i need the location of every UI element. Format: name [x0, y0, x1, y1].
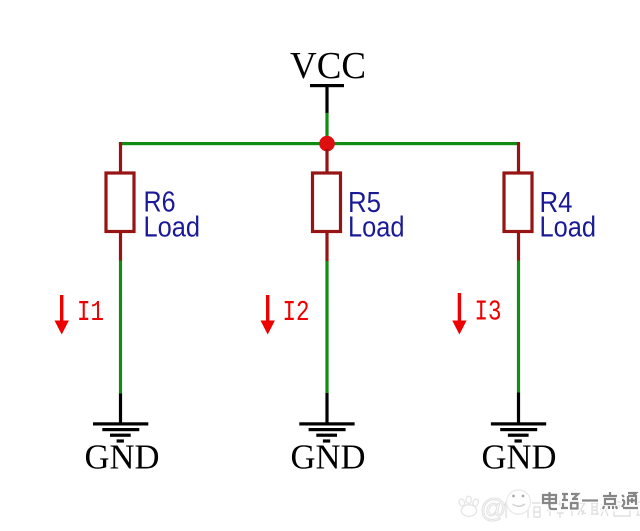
resistor R4	[504, 173, 532, 232]
watermark faint glyph 1	[504, 500, 520, 518]
wire horizontal bus (green)	[119, 142, 519, 145]
watermark faint glyph 5	[591, 502, 609, 516]
wire R6 to ground (green)	[119, 261, 122, 394]
watermark paw icon (faint)	[458, 496, 479, 516]
wire R5 lower stub (dark red)	[325, 233, 328, 261]
svg-text:Load: Load	[144, 212, 201, 244]
wire VCC to junction (green)	[325, 113, 328, 144]
resistor R5	[313, 173, 341, 232]
watermark text dianlu-yidiantong (vector strokes)	[543, 492, 638, 509]
watermark faint glyph 4	[569, 501, 586, 516]
watermark logo circle	[507, 490, 531, 514]
wire ground stub left (black)	[119, 394, 122, 424]
svg-text:GND: GND	[291, 438, 366, 477]
junction node (red dot)	[319, 136, 335, 152]
svg-text:Load: Load	[540, 212, 597, 244]
wire junction to R5 (dark red)	[325, 149, 328, 172]
wire R5 to ground (green)	[325, 261, 328, 393]
watermark faint glyph 3	[547, 500, 565, 518]
wire corner cap left	[119, 142, 122, 145]
wire R6 lower stub (dark red)	[119, 233, 122, 261]
svg-text:GND: GND	[85, 438, 160, 477]
wire R4 lower stub (dark red)	[517, 232, 520, 261]
resistor R6	[106, 173, 134, 232]
ground symbol right	[491, 422, 546, 442]
ground symbol middle	[299, 422, 354, 442]
svg-text:I2: I2	[283, 296, 310, 329]
wire R4 to ground (green)	[517, 261, 520, 393]
ground symbol left	[93, 422, 148, 442]
watermark halo under dark text	[543, 492, 638, 509]
svg-text:Load: Load	[348, 212, 405, 244]
wire corner cap right	[517, 142, 520, 145]
watermark faint glyph 7 (clipped at edge)	[636, 502, 640, 515]
wire ground stub middle (black)	[325, 393, 328, 424]
svg-text:GND: GND	[482, 438, 557, 477]
watermark faint glyph 6	[614, 502, 630, 516]
wire ground stub right (black)	[517, 393, 520, 424]
svg-text:I1: I1	[77, 296, 104, 329]
wire bus to R4 (dark red)	[517, 143, 520, 172]
power symbol VCC (T-bar)	[310, 84, 344, 87]
wire VCC stub (black)	[325, 86, 328, 114]
svg-text:@: @	[480, 493, 506, 523]
watermark faint glyph 2	[526, 500, 542, 518]
current arrow I1	[55, 295, 69, 335]
svg-text:VCC: VCC	[290, 45, 366, 87]
svg-text:I3: I3	[475, 295, 502, 328]
wire bus to R6 (dark red)	[119, 143, 122, 172]
current arrow I3	[452, 293, 466, 335]
current arrow I2	[261, 295, 275, 335]
